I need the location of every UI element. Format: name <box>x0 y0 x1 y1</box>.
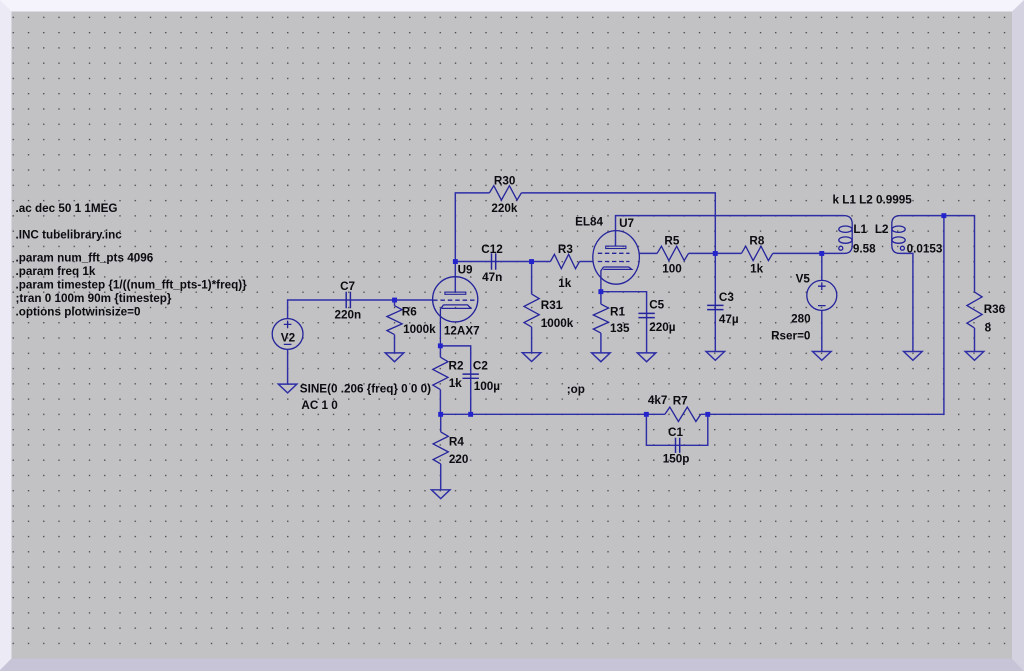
capacitor C2 plates <box>463 374 479 378</box>
wire R31 leads <box>531 262 533 353</box>
svg-text:k L1 L2 0.9995: k L1 L2 0.9995 <box>833 193 913 206</box>
node D <box>438 343 443 348</box>
node A <box>392 298 397 303</box>
svg-text:R2: R2 <box>449 360 464 373</box>
svg-text:220µ: 220µ <box>649 321 676 334</box>
svg-text:V2: V2 <box>281 331 296 344</box>
svg-text:100: 100 <box>662 263 682 276</box>
svg-text:R31: R31 <box>541 299 563 312</box>
node G <box>819 251 824 256</box>
wire R3 to U7 grid <box>580 261 593 263</box>
capacitor C12 plates <box>492 253 496 269</box>
svg-text:.INC tubelibrary.inc: .INC tubelibrary.inc <box>16 229 123 242</box>
svg-text:U7: U7 <box>619 217 634 230</box>
svg-text:V5: V5 <box>796 273 811 286</box>
wire R30 to B+ node <box>521 193 715 254</box>
node E <box>598 289 603 294</box>
svg-text:C5: C5 <box>649 299 664 312</box>
resistor R31 body <box>524 294 539 327</box>
node F <box>713 251 718 256</box>
wire feedback rail right and riser <box>701 216 944 415</box>
svg-text:L1: L1 <box>853 223 867 236</box>
ground (R36) <box>965 352 984 361</box>
svg-text:1k: 1k <box>750 263 764 276</box>
svg-text:C12: C12 <box>481 243 503 256</box>
svg-text:12AX7: 12AX7 <box>444 325 480 338</box>
wire R1 leads <box>600 292 602 353</box>
svg-text:100µ: 100µ <box>474 380 501 393</box>
voltage source V5 <box>807 280 837 310</box>
ground (R4) <box>431 490 450 499</box>
svg-text:47µ: 47µ <box>719 313 739 326</box>
wire V2 to ground <box>287 349 289 384</box>
svg-text:AC 1 0: AC 1 0 <box>301 399 338 412</box>
svg-text:.param timestep {1/((num_fft_p: .param timestep {1/((num_fft_pts-1)*freq… <box>16 278 248 291</box>
node L <box>705 412 710 417</box>
node C <box>529 259 534 264</box>
svg-text:C2: C2 <box>473 360 488 373</box>
svg-text:;op: ;op <box>567 383 585 396</box>
node I <box>438 412 443 417</box>
svg-text:U9: U9 <box>458 264 473 277</box>
wire L2 to output node <box>900 215 944 217</box>
node H <box>941 213 946 218</box>
ground (R6) <box>385 353 404 362</box>
svg-text:0.0153: 0.0153 <box>907 243 943 256</box>
resistor R6 body <box>387 306 402 335</box>
svg-text:R8: R8 <box>749 234 764 247</box>
capacitor C7 plates <box>346 292 350 308</box>
svg-text:220: 220 <box>449 453 469 466</box>
resistor R2 body <box>433 357 448 389</box>
resistor R36 body <box>967 292 982 328</box>
outer window frame left band <box>0 0 12 670</box>
wire U9 anode pin <box>454 262 456 292</box>
svg-text:R1: R1 <box>610 306 625 319</box>
wire U9 anode riser to R30 <box>455 193 489 262</box>
wire R2 leads <box>439 346 441 414</box>
resistor R7 body <box>665 407 701 421</box>
capacitor C5 plates <box>638 313 654 317</box>
wire feedback rail left <box>441 413 665 415</box>
wire R8 leads <box>715 252 822 254</box>
wire R6 leads <box>394 300 396 353</box>
svg-text:1000k: 1000k <box>403 323 436 336</box>
wire U7 anode to L1 <box>616 216 845 247</box>
svg-text:1000k: 1000k <box>541 317 574 330</box>
node K <box>644 412 649 417</box>
svg-text:Rser=0: Rser=0 <box>771 329 811 342</box>
svg-text:EL84: EL84 <box>575 216 603 229</box>
svg-text:47n: 47n <box>482 271 502 284</box>
ground (V2) <box>278 384 297 393</box>
wire node to R3 <box>532 261 551 263</box>
svg-text:R5: R5 <box>664 234 679 247</box>
resistor R30 body <box>489 186 521 200</box>
svg-text:1k: 1k <box>449 377 463 390</box>
tube U9 triode 12AX7 <box>433 277 478 346</box>
svg-text:L2: L2 <box>875 223 889 236</box>
svg-text:R36: R36 <box>984 303 1006 316</box>
wire L1 bottom and V5 leads <box>822 253 844 351</box>
svg-text:C7: C7 <box>340 280 355 293</box>
ground (C3) <box>706 352 725 361</box>
outer window frame right band <box>1012 0 1024 671</box>
resistor R8 body <box>741 246 772 260</box>
svg-text:R6: R6 <box>402 306 417 319</box>
svg-text:C3: C3 <box>719 291 734 304</box>
wire R4 leads <box>440 414 442 490</box>
svg-text:R7: R7 <box>673 394 688 407</box>
ground (R1) <box>592 353 611 362</box>
inductor L2 <box>892 216 905 254</box>
svg-text:280: 280 <box>791 312 811 325</box>
svg-text:150p: 150p <box>663 452 690 465</box>
svg-text:220k: 220k <box>491 202 518 215</box>
svg-text:1k: 1k <box>558 277 572 290</box>
ground (C5) <box>637 353 656 362</box>
svg-text:9.58: 9.58 <box>853 242 876 255</box>
wire C3 lead <box>714 253 716 351</box>
svg-text:.ac dec 50 1 1MEG: .ac dec 50 1 1MEG <box>16 202 118 215</box>
svg-text:;tran 0 100m 90m {timestep}: ;tran 0 100m 90m {timestep} <box>16 292 172 305</box>
wire L2 bottom to ground <box>900 253 913 351</box>
tube U7 pentode EL84 <box>593 231 640 292</box>
wire R36 leads <box>944 216 975 352</box>
resistor R3 body <box>550 254 579 268</box>
capacitor C3 plates <box>707 305 723 309</box>
ground (R31) <box>522 353 541 362</box>
svg-text:C1: C1 <box>668 426 683 439</box>
resistor R5 body <box>657 246 688 260</box>
wire cathode node through C5 to ground <box>601 292 647 353</box>
wire C1 loop <box>646 414 707 445</box>
resistor R4 body <box>433 432 448 464</box>
node J <box>468 412 473 417</box>
svg-text:.param freq 1k: .param freq 1k <box>16 265 96 278</box>
wire node through C12 to node <box>455 261 531 263</box>
wire V2 through C7 to U9 grid <box>288 300 433 319</box>
wire cathode node through C2 to rail <box>440 346 470 414</box>
capacitor C1 plates <box>676 438 680 453</box>
ground (V5) <box>813 352 832 361</box>
ground (L2) <box>904 352 923 361</box>
svg-text:R30: R30 <box>494 175 516 188</box>
node B <box>453 259 458 264</box>
outer window frame bottom band <box>0 659 1024 671</box>
svg-text:R3: R3 <box>558 243 573 256</box>
svg-text:.param num_fft_pts 4096: .param num_fft_pts 4096 <box>16 251 154 264</box>
svg-text:4k7: 4k7 <box>648 394 668 407</box>
voltage source V2 <box>272 319 303 350</box>
svg-text:.options plotwinsize=0: .options plotwinsize=0 <box>16 305 142 318</box>
wire R5 leads <box>639 252 715 254</box>
resistor R1 body <box>593 304 608 333</box>
outer window frame top band <box>0 0 1024 12</box>
svg-text:8: 8 <box>985 322 992 335</box>
inductor L1 <box>839 216 852 254</box>
svg-text:SINE(0 .206 {freq} 0 0 0): SINE(0 .206 {freq} 0 0 0) <box>300 383 431 396</box>
svg-text:220n: 220n <box>335 309 362 322</box>
svg-text:135: 135 <box>610 322 630 335</box>
svg-text:R4: R4 <box>449 436 464 449</box>
